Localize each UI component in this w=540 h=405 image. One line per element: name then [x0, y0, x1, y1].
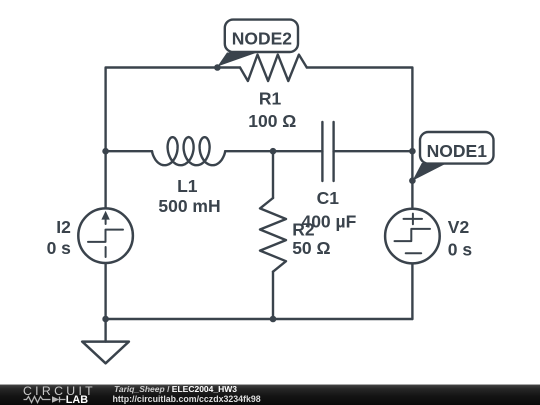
V2 step waveform symbol	[395, 229, 431, 241]
svg-text:0 s: 0 s	[448, 239, 473, 259]
svg-text:V2: V2	[448, 217, 470, 237]
ground symbol	[82, 342, 129, 364]
junction node dot right middle	[409, 148, 416, 155]
current source I2 body	[78, 208, 133, 263]
wire top left segment	[106, 68, 240, 152]
svg-text:Tariq_Sheep / ELEC2004_HW3: Tariq_Sheep / ELEC2004_HW3	[114, 384, 237, 394]
svg-text:R2: R2	[292, 219, 315, 239]
junction node dot R2 bottom	[270, 316, 277, 323]
svg-text:NODE2: NODE2	[232, 29, 293, 49]
inductor L1	[152, 137, 225, 165]
junction node dot ground	[102, 316, 109, 323]
wire I2 bottom to ground node	[104, 263, 106, 319]
svg-text:LAB: LAB	[66, 394, 88, 405]
resistor R1	[240, 55, 307, 81]
V2 plus sign	[404, 214, 423, 225]
wire R2 top lead	[272, 151, 274, 198]
wire capacitor to right rail	[334, 150, 413, 152]
svg-text:100 Ω: 100 Ω	[248, 111, 296, 131]
svg-text:NODE1: NODE1	[427, 141, 488, 161]
capacitor C1 left plate	[321, 122, 323, 181]
wire inductor to capacitor	[225, 150, 322, 152]
node NODE1 callout tail	[412, 163, 446, 181]
wire left middle (node to inductor)	[106, 150, 152, 152]
junction node dot NODE1 anchor	[409, 177, 416, 184]
wire R2 bottom lead	[272, 272, 274, 319]
svg-text:0 s: 0 s	[47, 238, 72, 258]
ground stub wire	[104, 319, 106, 342]
svg-text:500 mH: 500 mH	[158, 196, 220, 216]
svg-text:C1: C1	[317, 188, 340, 208]
footer logo schematic glyph (resistor + diode)	[24, 397, 66, 403]
node NODE2 callout tail	[217, 53, 257, 67]
I2 step waveform symbol	[88, 230, 123, 242]
wire left rail I2 top	[104, 151, 106, 208]
svg-text:http://circuitlab.com/cczdx323: http://circuitlab.com/cczdx3234fk98	[113, 394, 261, 404]
node NODE1 callout box	[420, 132, 494, 164]
footer logo diode triangle	[52, 396, 59, 402]
svg-text:R1: R1	[259, 89, 282, 109]
svg-text:50 Ω: 50 Ω	[292, 238, 330, 258]
svg-text:L1: L1	[177, 176, 198, 196]
resistor R2	[260, 198, 286, 272]
I2 arrow shaft bottom	[105, 247, 107, 257]
junction node dot R2 top	[270, 148, 277, 155]
node NODE2 callout box	[225, 20, 298, 52]
voltage source V2 body	[385, 209, 440, 264]
I2 arrow shaft top	[105, 217, 107, 225]
junction node dot left middle	[102, 148, 109, 155]
wire V2 bottom to bottom rail	[411, 264, 413, 319]
wire bottom rail	[106, 318, 413, 320]
I2 arrowhead	[101, 211, 109, 220]
capacitor C1 right plate	[332, 122, 334, 181]
svg-text:I2: I2	[56, 217, 71, 237]
wire top right segment	[307, 68, 413, 208]
junction node dot top (NODE2 anchor)	[214, 64, 221, 71]
V2 minus sign	[406, 252, 422, 254]
